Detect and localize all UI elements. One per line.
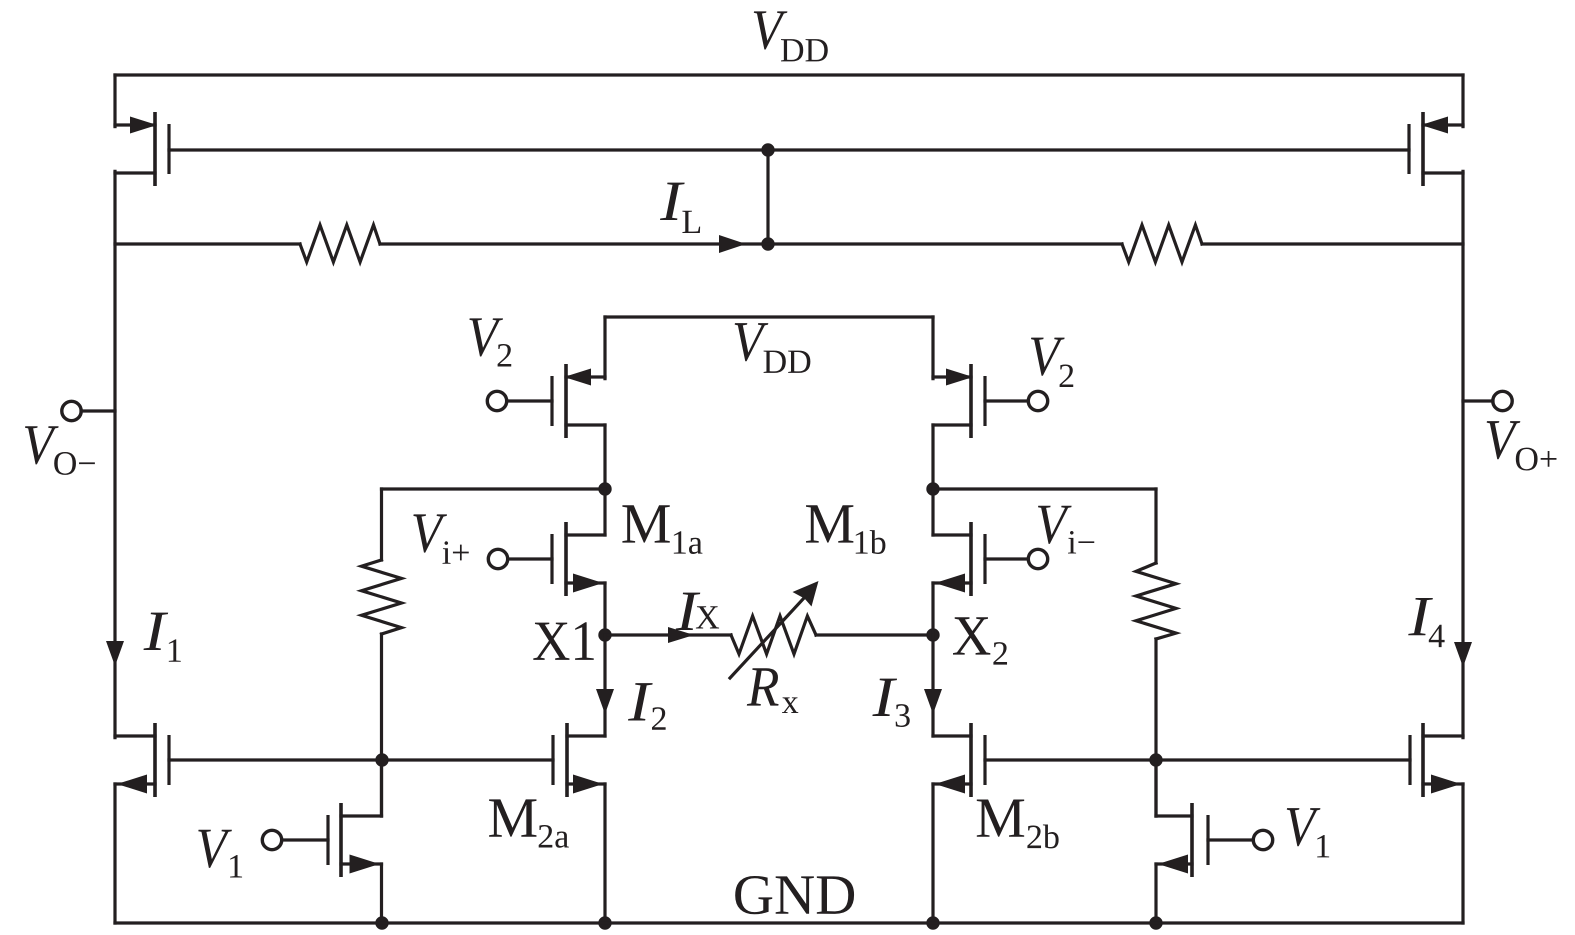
wire right resistor branch to V1b drain — [1154, 760, 1157, 816]
label Rx — [747, 668, 798, 713]
wire node A to left feedback resistor — [382, 487, 606, 490]
arrow current IX — [668, 627, 694, 643]
label current IL — [660, 183, 700, 233]
arrow current I2 — [596, 689, 614, 714]
label M1b — [806, 505, 885, 554]
label node X2 — [953, 617, 1007, 664]
terminal VO+ output — [1463, 391, 1512, 410]
wire V1a source down to GND rail — [380, 864, 383, 923]
transistor bottom-right NMOS mirror — [1410, 723, 1463, 797]
node gate-rail junction — [762, 144, 774, 156]
wire bottom-right NMOS source down to GND rail — [1461, 784, 1464, 923]
wire node A to M1a drain — [603, 489, 606, 535]
arrow current I3 — [924, 689, 942, 714]
wire NMOS gate rail right — [985, 758, 1410, 761]
node gate rail right junction — [1150, 754, 1162, 766]
transistor left cascode PMOS (V2) — [552, 364, 605, 438]
label V1 left — [198, 830, 242, 878]
label current I1 — [144, 613, 181, 662]
terminal gate Vi- — [985, 549, 1048, 568]
node M2a GND junction — [599, 917, 611, 929]
label VO+ — [1487, 421, 1557, 470]
terminal gate V2 right — [985, 391, 1048, 410]
wire PMOS mirror gate rail — [169, 148, 1409, 151]
label net VDD (middle) — [735, 323, 811, 373]
label M1a — [622, 505, 702, 554]
wire IL rail middle segment — [380, 242, 1122, 245]
wire right rail upper segment — [1461, 75, 1464, 127]
terminal VO- output — [62, 401, 115, 420]
label V2 left — [469, 318, 511, 366]
label net VDD (top) — [754, 11, 828, 61]
arrow current I4 — [1454, 642, 1472, 667]
wire left cascode drain to node A — [603, 425, 606, 489]
label V2 right — [1031, 338, 1073, 387]
label current IX — [676, 593, 719, 630]
node gate rail left junction — [376, 754, 388, 766]
label current I2 — [628, 683, 666, 730]
terminal gate V2 left — [487, 391, 552, 410]
wire X1 to Rx — [605, 633, 731, 636]
node V1b GND junction — [1150, 917, 1162, 929]
label M2b — [977, 799, 1059, 848]
node IL rail junction — [762, 238, 774, 250]
wire node B to right feedback resistor — [933, 487, 1156, 490]
node X1 — [599, 629, 611, 641]
terminal gate V1 left — [262, 830, 328, 849]
wire M1b source to node X2 — [931, 583, 934, 635]
wire junction to IL rail — [766, 150, 769, 244]
node X2 — [927, 629, 939, 641]
label M2a — [489, 799, 569, 847]
transistor M2a NMOS — [553, 723, 605, 797]
wire right cascode drain to node B — [931, 425, 934, 489]
wire IL rail right segment — [1202, 242, 1463, 245]
node B (right cascode/M1b junction) — [927, 483, 939, 495]
resistor left load (IL rail) — [300, 225, 380, 262]
wire top VDD rail — [115, 73, 1463, 76]
label Vi- — [1038, 506, 1094, 554]
wire left resistor branch to V1a drain — [380, 760, 383, 816]
wire right rail from top-right PMOS drain down to GND row — [1461, 171, 1464, 737]
label net GND — [735, 876, 854, 914]
arrow current I1 — [106, 641, 124, 666]
wire M2a source down to GND rail — [603, 784, 606, 923]
transistor bottom-left NMOS mirror — [115, 723, 169, 797]
node V1a GND junction — [376, 917, 388, 929]
terminal gate V1 right — [1208, 830, 1273, 849]
label V1 right — [1287, 808, 1329, 857]
wire GND rail — [115, 921, 1463, 924]
wire X2 down to M2b drain — [931, 635, 934, 736]
transistor V1b NMOS tail — [1156, 803, 1208, 877]
wire VDD bus to left cascode source — [603, 317, 606, 379]
label VO- — [25, 426, 95, 475]
transistor top-right PMOS current mirror — [1409, 112, 1463, 186]
wire left rail from top-left PMOS drain down to GND row — [113, 171, 116, 737]
wire X1 down to M2a drain — [603, 635, 606, 736]
transistor V1a NMOS tail — [328, 803, 382, 877]
node A (left cascode/M1a junction) — [599, 483, 611, 495]
wire M2b source down to GND rail — [931, 784, 934, 923]
wire V1b source down to GND rail — [1154, 864, 1157, 923]
transistor right cascode PMOS (V2) — [933, 364, 985, 438]
wire M1b drain to node B — [931, 489, 934, 535]
wire IL rail left segment — [115, 242, 300, 245]
label current I4 — [1408, 598, 1444, 647]
label node X1 — [533, 622, 593, 660]
transistor M1b NMOS input — [933, 522, 985, 596]
node M2b GND junction — [927, 917, 939, 929]
resistor Rx variable — [730, 581, 819, 678]
wire Rx to X2 — [816, 633, 933, 636]
label current I3 — [872, 679, 909, 727]
wire M1a source to node X1 — [603, 583, 606, 635]
arrow current IL — [719, 235, 746, 253]
label Vi+ — [413, 514, 468, 563]
wire NMOS gate rail left — [169, 758, 553, 761]
resistor left feedback — [362, 489, 402, 816]
resistor right feedback — [1136, 489, 1176, 816]
wire bottom-left NMOS source down to GND rail — [113, 784, 116, 923]
terminal gate Vi+ — [488, 549, 552, 568]
wire middle VDD bus — [605, 315, 933, 318]
resistor right load (IL rail) — [1122, 225, 1202, 262]
wire left rail upper segment — [113, 75, 116, 127]
transistor top-left PMOS current mirror — [115, 112, 169, 186]
transistor M1a NMOS input — [552, 522, 605, 596]
wire VDD bus to right cascode source — [931, 317, 934, 379]
transistor M2b NMOS — [933, 723, 985, 797]
